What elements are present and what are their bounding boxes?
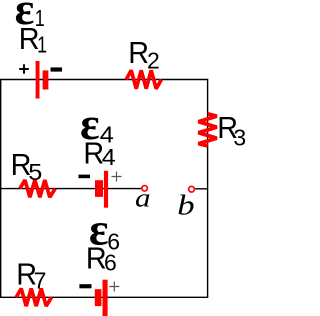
svg-text:2: 2: [147, 48, 160, 74]
svg-text:3: 3: [233, 124, 246, 150]
svg-text:b: b: [177, 188, 194, 221]
svg-text:6: 6: [104, 249, 117, 275]
svg-text:1: 1: [37, 32, 47, 58]
svg-text:5: 5: [28, 160, 42, 186]
svg-text:4: 4: [102, 145, 116, 171]
svg-text:7: 7: [34, 268, 47, 294]
svg-text:a: a: [135, 184, 151, 213]
svg-text:R: R: [128, 36, 149, 70]
